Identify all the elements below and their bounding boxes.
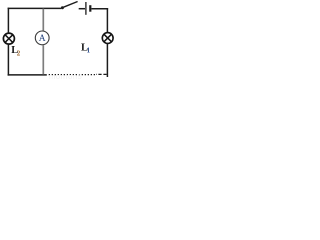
battery positive plate (long): [85, 2, 87, 15]
lamp L1 symbol (circle): [102, 33, 113, 44]
svg-text:2: 2: [17, 50, 21, 58]
wire battery to top-right corner: [92, 8, 109, 10]
lamp L2 symbol (circle): [3, 33, 14, 44]
wire left side lower (bottom-left corner up to lamp L2): [7, 45, 9, 76]
ammeter branch lead upper (gray): [42, 9, 44, 31]
wire right side upper (corner down to lamp L1): [106, 8, 108, 33]
ammeter branch lead lower (gray): [42, 45, 44, 74]
switch S (open) pivot dot: [61, 6, 64, 9]
lamp L1 cross: [104, 34, 111, 41]
wire switch to battery: [79, 8, 85, 10]
svg-text:1: 1: [87, 47, 91, 55]
wire right side lower (lamp L1 down to bottom-right corner): [106, 44, 108, 77]
wire bottom dotted segment: [47, 74, 95, 76]
battery negative plate (short thick): [89, 5, 91, 12]
wire top-left segment: [8, 7, 62, 9]
switch S blade arm: [63, 2, 77, 8]
lamp L2 cross: [5, 35, 13, 43]
wire bottom dashed segment: [96, 73, 107, 75]
svg-text:monfon5: monfon5: [49, 72, 82, 80]
ammeter A1 circle: [35, 31, 49, 45]
wire bottom solid segment: [8, 74, 47, 76]
wire left side upper (lamp L2 up to top-left corner): [7, 8, 9, 34]
svg-text:A: A: [39, 34, 46, 44]
